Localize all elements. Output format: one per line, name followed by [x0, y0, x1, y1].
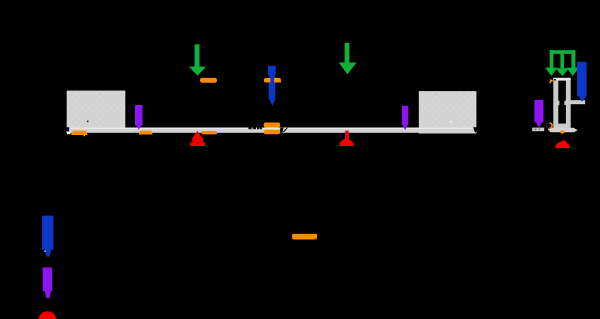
white notch under beam at block W1 left: [67, 132, 71, 135]
orange pad B (trapezoid shoe right of purple arrow P1): [139, 131, 153, 135]
blue force arrow F6 (bottom-left, down): [42, 216, 53, 257]
green load arrow F3 (down): [339, 43, 357, 75]
black zigzag hinge mark on beam: [279, 128, 288, 133]
cyan node dot below P1: [135, 131, 137, 132]
cyan node dot left of dash D: [200, 132, 201, 133]
beam end cap left (black node marker): [66, 127, 70, 131]
orange dash D (on beam right of support S1): [202, 131, 218, 134]
cyan node dots flanking S2 stem: [344, 131, 345, 132]
beam top highlight stripe: [66, 128, 477, 129]
yellow pixel on link dash: [275, 78, 276, 79]
tower bracket arm (right, under blue arrow F5): [571, 100, 586, 104]
beam end cap right (black node marker): [473, 127, 477, 132]
green load arrow F1 (down): [189, 44, 206, 75]
orange dot at tower base center: [560, 130, 564, 133]
purple arrow P4 (bottom-left, down): [43, 267, 53, 298]
orange dash C (below F1 tip): [200, 78, 217, 83]
red corner pixel on dash I: [315, 238, 317, 239]
dark dashed gap marks on beam top edge: [248, 127, 262, 129]
orange dash I (lower middle): [292, 234, 317, 240]
red dome support S3 (under tower base): [555, 141, 570, 149]
orange pad F (below beam, middle): [264, 130, 280, 134]
orange link dash G (left pad over F2): [264, 78, 271, 83]
blue force arrow F5 (right, down onto bracket arm): [577, 62, 587, 102]
orange pad E (above beam, middle): [264, 123, 280, 128]
purple arrow P3 (down, near tower): [534, 100, 543, 128]
purple arrow P2 (down, onto beam near block W2): [402, 106, 408, 131]
tower base plate: [548, 128, 578, 133]
blue force arrow F2 (middle, down): [268, 66, 276, 106]
orange link dash H (right pad over F2): [274, 78, 281, 83]
cyan node dot on F6 tip: [44, 250, 46, 252]
orange ring marker at tower bottom-left: [547, 123, 552, 128]
yellow dot near pad A: [84, 135, 85, 136]
red node dome S4 (bottom-left, clipped at page bottom): [39, 311, 56, 319]
gray pad under purple arrow P3: [532, 128, 544, 132]
cyan node dot at pad A left: [71, 132, 73, 133]
tower column (hollow gray frame): [553, 78, 570, 129]
orange pad A (trapezoid shoe under block W1): [71, 131, 88, 135]
purple arrow P1 (down, onto beam): [135, 105, 143, 130]
wall block W2 (right, dotted mass block): [419, 91, 476, 133]
red support S1 (pin under beam): [190, 131, 205, 146]
red support S2 (stem + dome under beam): [339, 131, 354, 146]
beam (main horizontal member): [66, 128, 477, 133]
wall block W1 (left, dotted mass block): [67, 91, 125, 131]
orange flag marker at tower top-left: [549, 79, 553, 83]
green triple load arrow F4 (trident, down onto tower top): [545, 50, 579, 76]
